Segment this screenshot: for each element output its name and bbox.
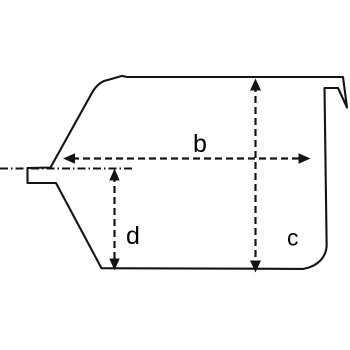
dimension d line: [113, 175, 115, 262]
dimension c top arrowhead: [250, 79, 261, 91]
dimension b left arrowhead: [63, 153, 75, 163]
bin outline: [28, 76, 348, 269]
svg-text:d: d: [126, 222, 140, 250]
svg-text:c: c: [287, 225, 299, 251]
svg-text:b: b: [193, 130, 207, 158]
dimension d bottom arrowhead: [109, 259, 119, 271]
dimension b line: [72, 157, 301, 159]
dimension d top arrowhead: [109, 169, 119, 181]
dimension b right arrowhead: [299, 153, 311, 163]
centerline (dash-dot): [0, 168, 133, 170]
dimension c bottom arrowhead: [250, 261, 261, 273]
dimension c line: [254, 85, 256, 262]
